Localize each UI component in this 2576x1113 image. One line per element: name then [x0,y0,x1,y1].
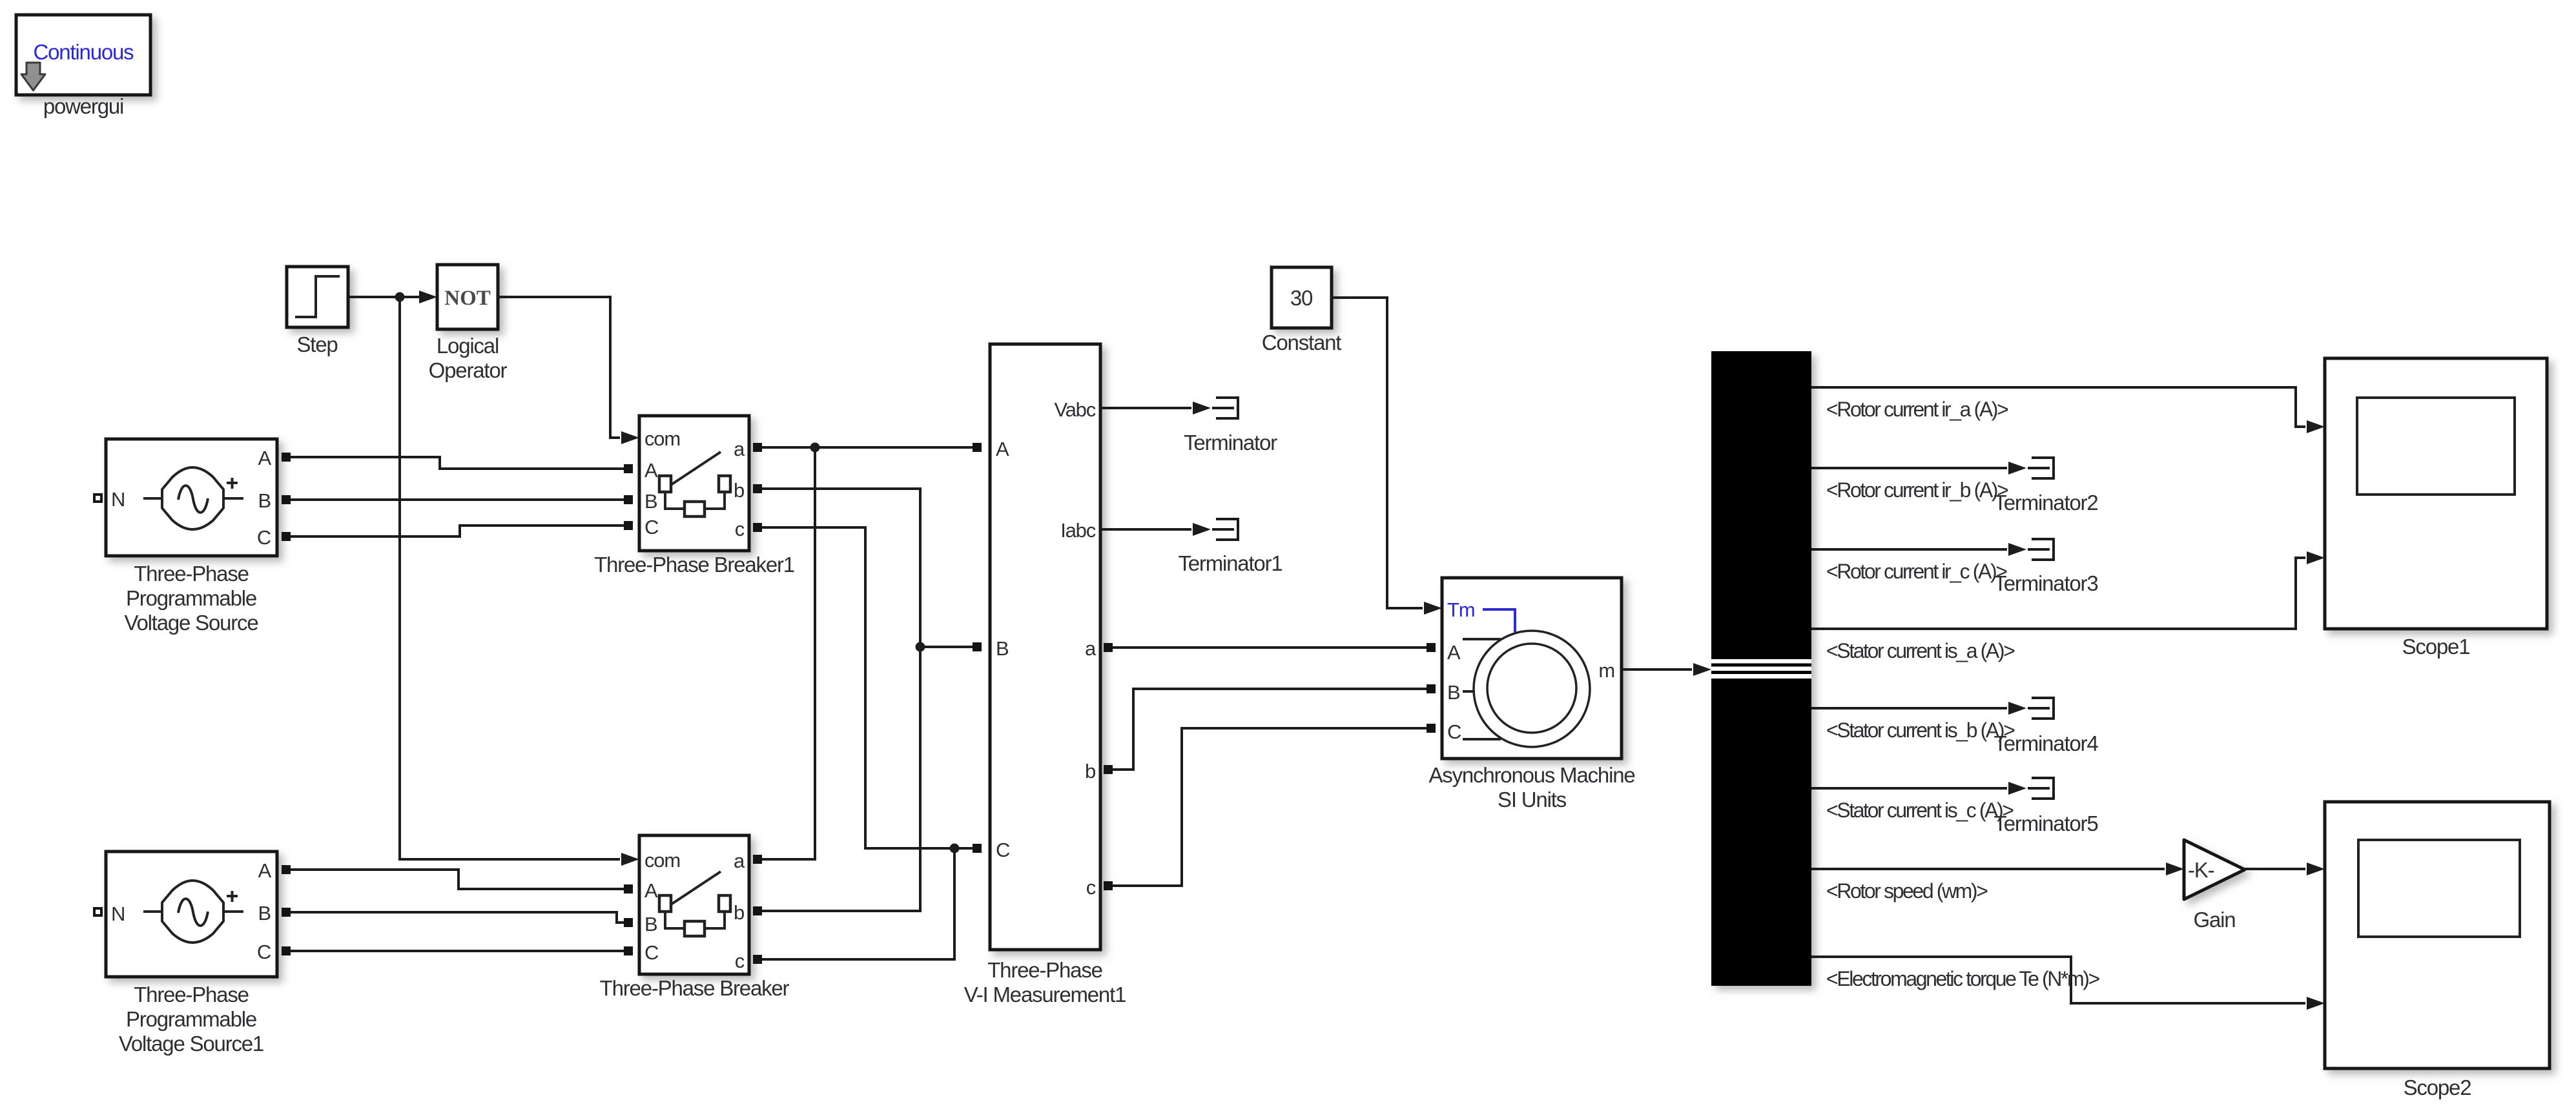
svg-text:Terminator1: Terminator1 [1178,551,1282,575]
svg-text:<Stator current is_b (A)>: <Stator current is_b (A)> [1826,719,2015,742]
Breaker1 switch blade [671,452,721,485]
svg-text:Scope2: Scope2 [2404,1076,2471,1099]
arrowhead into Tm [1424,602,1442,615]
Breaker output square a [753,855,762,864]
AC left lead [143,497,162,500]
Breaker1 switch icon right pin [719,476,730,492]
arrowhead into Bus Selector [1693,663,1711,676]
svg-text:<Stator current is_c (A)>: <Stator current is_c (A)> [1826,799,2014,822]
svg-text:com: com [644,849,680,872]
Bus Selector stripes [1711,659,1811,679]
svg-text:NOT: NOT [444,287,491,310]
arrowhead into Terminator [1193,402,1211,414]
svg-text:Logical: Logical [437,334,499,358]
Breaker1 switch icon left pin [659,476,671,492]
svg-text:c: c [735,950,745,972]
wire Gain to Scope2 input 1 [2245,868,2305,870]
Machine inner circle [1487,644,1576,733]
arrowhead into Terminator3 [2008,543,2026,556]
svg-text:A: A [644,459,658,482]
svg-text:30: 30 [1290,286,1313,310]
wire source C to Breaker1 C [291,526,624,536]
Terminator5 symbol [2028,778,2054,799]
wire Breaker c up to c-chain [762,848,954,959]
wire source1 A to Breaker A [291,870,624,889]
svg-text:Iabc: Iabc [1060,519,1095,542]
svg-text:A: A [996,438,1009,460]
powergui arrow icon [21,63,45,90]
svg-text:<Rotor current ir_a (A)>: <Rotor current ir_a (A)> [1826,398,2008,421]
svg-text:Programmable: Programmable [126,1007,256,1031]
Terminator symbol [1212,398,1238,418]
svg-text:B: B [258,489,271,512]
svg-text:Voltage Source: Voltage Source [124,611,258,635]
wire Machine m to Bus Selector [1622,668,1692,671]
svg-text:b: b [734,479,744,502]
Scope2 screen [2358,840,2520,937]
Breaker input square A [624,884,633,893]
svg-text:Continuous: Continuous [34,40,134,64]
svg-text:Three-Phase: Three-Phase [134,562,249,586]
svg-text:SI Units: SI Units [1498,788,1567,812]
wire Electromagnetic torque to Scope2 input 2 [1811,957,2305,1003]
Constant block [1272,267,1332,328]
svg-text:Three-Phase: Three-Phase [987,958,1102,982]
arrowhead into Terminator1 [1193,523,1211,536]
output port square C [282,946,291,955]
output port square C [282,532,291,541]
svg-text:Three-Phase Breaker: Three-Phase Breaker [600,976,790,1000]
Breaker output square c [753,955,762,964]
svg-text:b: b [1085,760,1095,782]
svg-text:<Rotor current ir_b (A)>: <Rotor current ir_b (A)> [1826,478,2008,502]
wire Breaker1 b to b-chain vertical [762,489,920,911]
N port (unconnected) [93,493,103,503]
junction node c-chain [950,844,960,853]
Asynchronous Machine block [1442,578,1622,759]
svg-text:<Rotor current ir_c (A)>: <Rotor current ir_c (A)> [1826,560,2007,583]
Machine input square C [1427,724,1436,733]
wire Stator current is_a to Scope1 input 2 [1811,558,2305,629]
Terminator1 symbol [1212,519,1238,540]
Three-Phase Breaker1 block [639,416,749,551]
Breaker1 resistor box [685,502,705,516]
svg-text:Three-Phase: Three-Phase [134,983,249,1006]
Breaker1 output square b [753,484,762,493]
svg-text:Terminator: Terminator [1184,431,1277,454]
svg-text:-K-: -K- [2188,858,2214,882]
Terminator3 symbol [2028,539,2054,560]
svg-text:com: com [644,427,680,450]
wire Constant to Machine Tm [1332,298,1423,608]
svg-text:a: a [734,850,745,872]
wire Rotor current ir_b to Terminator2 [1811,467,2007,469]
Machine input square A [1427,643,1436,652]
AC source icon [162,467,223,529]
Breaker1 resistor branch [665,492,725,509]
Bus Selector block [1711,351,1811,986]
AC left lead [143,910,162,913]
svg-text:Three-Phase Breaker1: Three-Phase Breaker1 [594,553,794,577]
svg-text:<Rotor speed (wm)>: <Rotor speed (wm)> [1826,879,1988,903]
svg-text:m: m [1598,659,1614,682]
svg-text:N: N [111,903,125,925]
svg-text:B: B [644,490,657,513]
svg-text:Operator: Operator [429,358,508,382]
svg-text:<Stator current is_a (A)>: <Stator current is_a (A)> [1826,639,2015,662]
junction node below Step wire [395,292,405,302]
AC source icon [162,881,223,943]
Breaker1 input square B [624,495,633,504]
Breaker switch icon left pin [659,895,671,912]
svg-text:A: A [644,879,658,902]
AC right lead [223,910,243,913]
Breaker resistor box [685,921,705,936]
svg-text:Tm: Tm [1447,598,1474,621]
junction node b-chain [916,642,925,652]
svg-text:A: A [258,447,272,469]
junction node a-chain [810,443,820,453]
wire b-chain to V-I B [920,646,973,648]
V-I output square c [1104,881,1113,890]
Step icon [295,276,340,317]
Breaker1 output square c [753,523,762,532]
Machine A stub [1463,638,1501,640]
svg-text:A: A [258,859,272,882]
wire source A to Breaker1 A [291,457,624,469]
Three-Phase Breaker block [639,835,749,974]
N port (unconnected) [93,907,103,917]
Breaker1 input square A [624,464,633,473]
wire Rotor current ir_c to Terminator3 [1811,548,2007,551]
Logical Operator NOT block [437,265,498,329]
wire Step to NOT [348,296,420,298]
output port square B [282,495,291,504]
svg-text:B: B [644,913,657,935]
arrowhead into Scope1 input 2 [2307,551,2325,564]
svg-text:C: C [644,516,659,538]
Gain block triangle [2184,840,2245,899]
AC sine wave [178,899,208,926]
svg-text:Constant: Constant [1262,331,1342,354]
V-I input square A [973,443,982,452]
wire a-chain vertical from Breaker a [762,447,815,859]
wire Rotor current ir_a to Scope1 input 1 [1811,387,2305,427]
svg-text:C: C [257,526,271,549]
Scope1 screen [2357,398,2515,495]
Machine outer circle [1474,631,1590,747]
svg-text:a: a [1085,637,1097,660]
arrowhead into Terminator5 [2008,782,2026,795]
Machine input square B [1427,684,1436,693]
svg-text:B: B [996,637,1009,660]
wire source B to Breaker1 B [291,498,624,501]
wire NOT output to Breaker1 com [498,297,620,438]
arrowhead into Terminator4 [2008,702,2026,715]
Breaker1 output square a [753,443,762,452]
svg-text:Vabc: Vabc [1054,398,1095,421]
Machine C stub [1463,738,1501,740]
wire junction down to Breaker com (bottom) [400,297,620,859]
arrowhead into Scope1 input 1 [2307,420,2325,433]
V-I output square b [1104,765,1113,774]
svg-text:c: c [1086,876,1096,899]
V-I input square B [973,642,982,651]
Breaker resistor branch [665,912,725,928]
AC right lead [223,497,243,500]
Breaker switch icon right pin [719,895,730,912]
wire Rotor speed to Gain [1811,868,2165,870]
Three-Phase Programmable Voltage Source1 block [106,852,277,977]
wire V-I c to Machine C [1113,728,1428,886]
svg-text:C: C [257,941,271,963]
svg-text:b: b [734,901,744,924]
svg-text:B: B [258,902,271,924]
arrowhead into Breaker1 com [621,431,639,444]
wire Breaker1 a to V-I A [762,446,973,449]
Breaker switch blade [671,872,721,904]
svg-text:C: C [1447,720,1461,743]
svg-text:V-I Measurement1: V-I Measurement1 [964,983,1126,1006]
wire V-I a to Machine A [1113,646,1428,649]
output port square B [282,908,291,917]
svg-text:c: c [735,518,745,540]
svg-text:Asynchronous Machine: Asynchronous Machine [1428,763,1634,787]
wire Stator current is_b to Terminator4 [1811,707,2007,710]
wire Iabc to Terminator1 [1100,528,1191,531]
svg-text:N: N [111,488,125,511]
wire Stator current is_c to Terminator5 [1811,787,2007,790]
Three-Phase V-I Measurement1 block [990,344,1100,950]
Three-Phase Programmable Voltage Source block [106,439,277,556]
svg-text:Scope1: Scope1 [2402,635,2470,659]
Scope2 block [2325,802,2550,1068]
arrowhead into Scope2 input 2 [2307,997,2325,1010]
svg-text:Terminator2: Terminator2 [1994,491,2097,515]
Step block [287,267,348,327]
svg-text:B: B [1447,681,1460,704]
Scope1 block [2325,358,2547,629]
svg-text:C: C [644,941,659,964]
Breaker input square C [624,946,633,955]
wire Vabc to Terminator [1100,407,1191,409]
svg-text:Voltage Source1: Voltage Source1 [119,1032,263,1056]
arrowhead into NOT [419,291,437,303]
svg-text:Gain: Gain [2194,908,2236,932]
plus sign [227,478,238,489]
arrowhead into Scope2 input 1 [2307,863,2325,875]
arrowhead into Breaker com [621,853,639,866]
svg-text:Programmable: Programmable [126,586,256,610]
output port square A [282,865,291,874]
Terminator4 symbol [2028,698,2054,719]
wire source1 B to Breaker B [291,912,624,923]
Terminator2 symbol [2028,458,2054,478]
powergui block [16,15,150,95]
arrowhead into Terminator2 [2008,462,2026,475]
svg-text:<Electromagnetic torque Te (N*: <Electromagnetic torque Te (N*m)> [1826,967,2099,990]
svg-text:Terminator4: Terminator4 [1994,731,2098,755]
wire source1 C to Breaker C [291,950,624,952]
wire Breaker1 c to V-I C [762,527,973,848]
wire V-I b to Machine B [1113,689,1428,770]
V-I output square a [1104,643,1113,652]
Breaker output square b [753,906,762,915]
svg-text:a: a [734,438,745,460]
AC sine wave [178,485,208,513]
svg-text:A: A [1447,641,1461,664]
svg-text:Terminator5: Terminator5 [1994,812,2097,835]
V-I input square C [973,844,982,853]
svg-text:C: C [996,839,1010,861]
plus sign [227,891,238,902]
Machine B stub [1463,690,1475,693]
arrowhead into Gain [2166,863,2184,875]
Breaker input square B [624,918,633,927]
Machine Tm blue wire [1483,609,1515,632]
svg-text:Terminator3: Terminator3 [1994,571,2097,595]
output port square A [282,453,291,462]
svg-text:powergui: powergui [43,94,123,118]
Breaker1 input square C [624,521,633,530]
svg-text:Step: Step [296,332,337,356]
